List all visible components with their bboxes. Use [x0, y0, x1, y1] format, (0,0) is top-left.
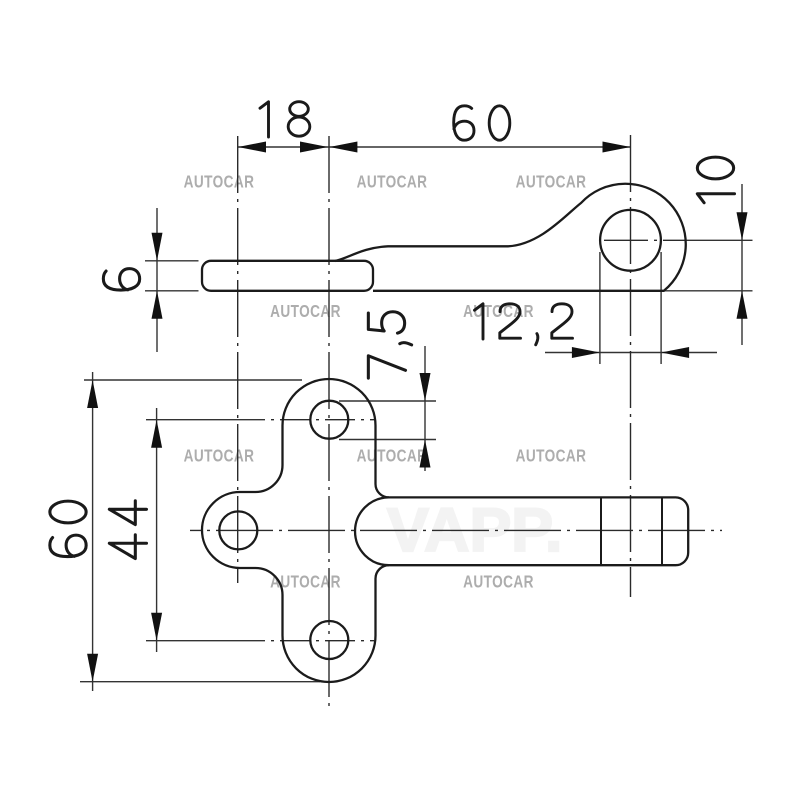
svg-text:AUTOCAR: AUTOCAR: [184, 447, 255, 466]
svg-text:AUTOCAR: AUTOCAR: [463, 573, 534, 592]
svg-text:AUTOCAR: AUTOCAR: [184, 173, 255, 192]
svg-text:AUTOCAR: AUTOCAR: [270, 303, 341, 322]
svg-text:AUTOCAR: AUTOCAR: [516, 173, 587, 192]
svg-text:AUTOCAR: AUTOCAR: [357, 173, 428, 192]
svg-text:AUTOCAR: AUTOCAR: [463, 303, 534, 322]
svg-text:AUTOCAR: AUTOCAR: [516, 447, 587, 466]
svg-text:AUTOCAR: AUTOCAR: [357, 447, 428, 466]
